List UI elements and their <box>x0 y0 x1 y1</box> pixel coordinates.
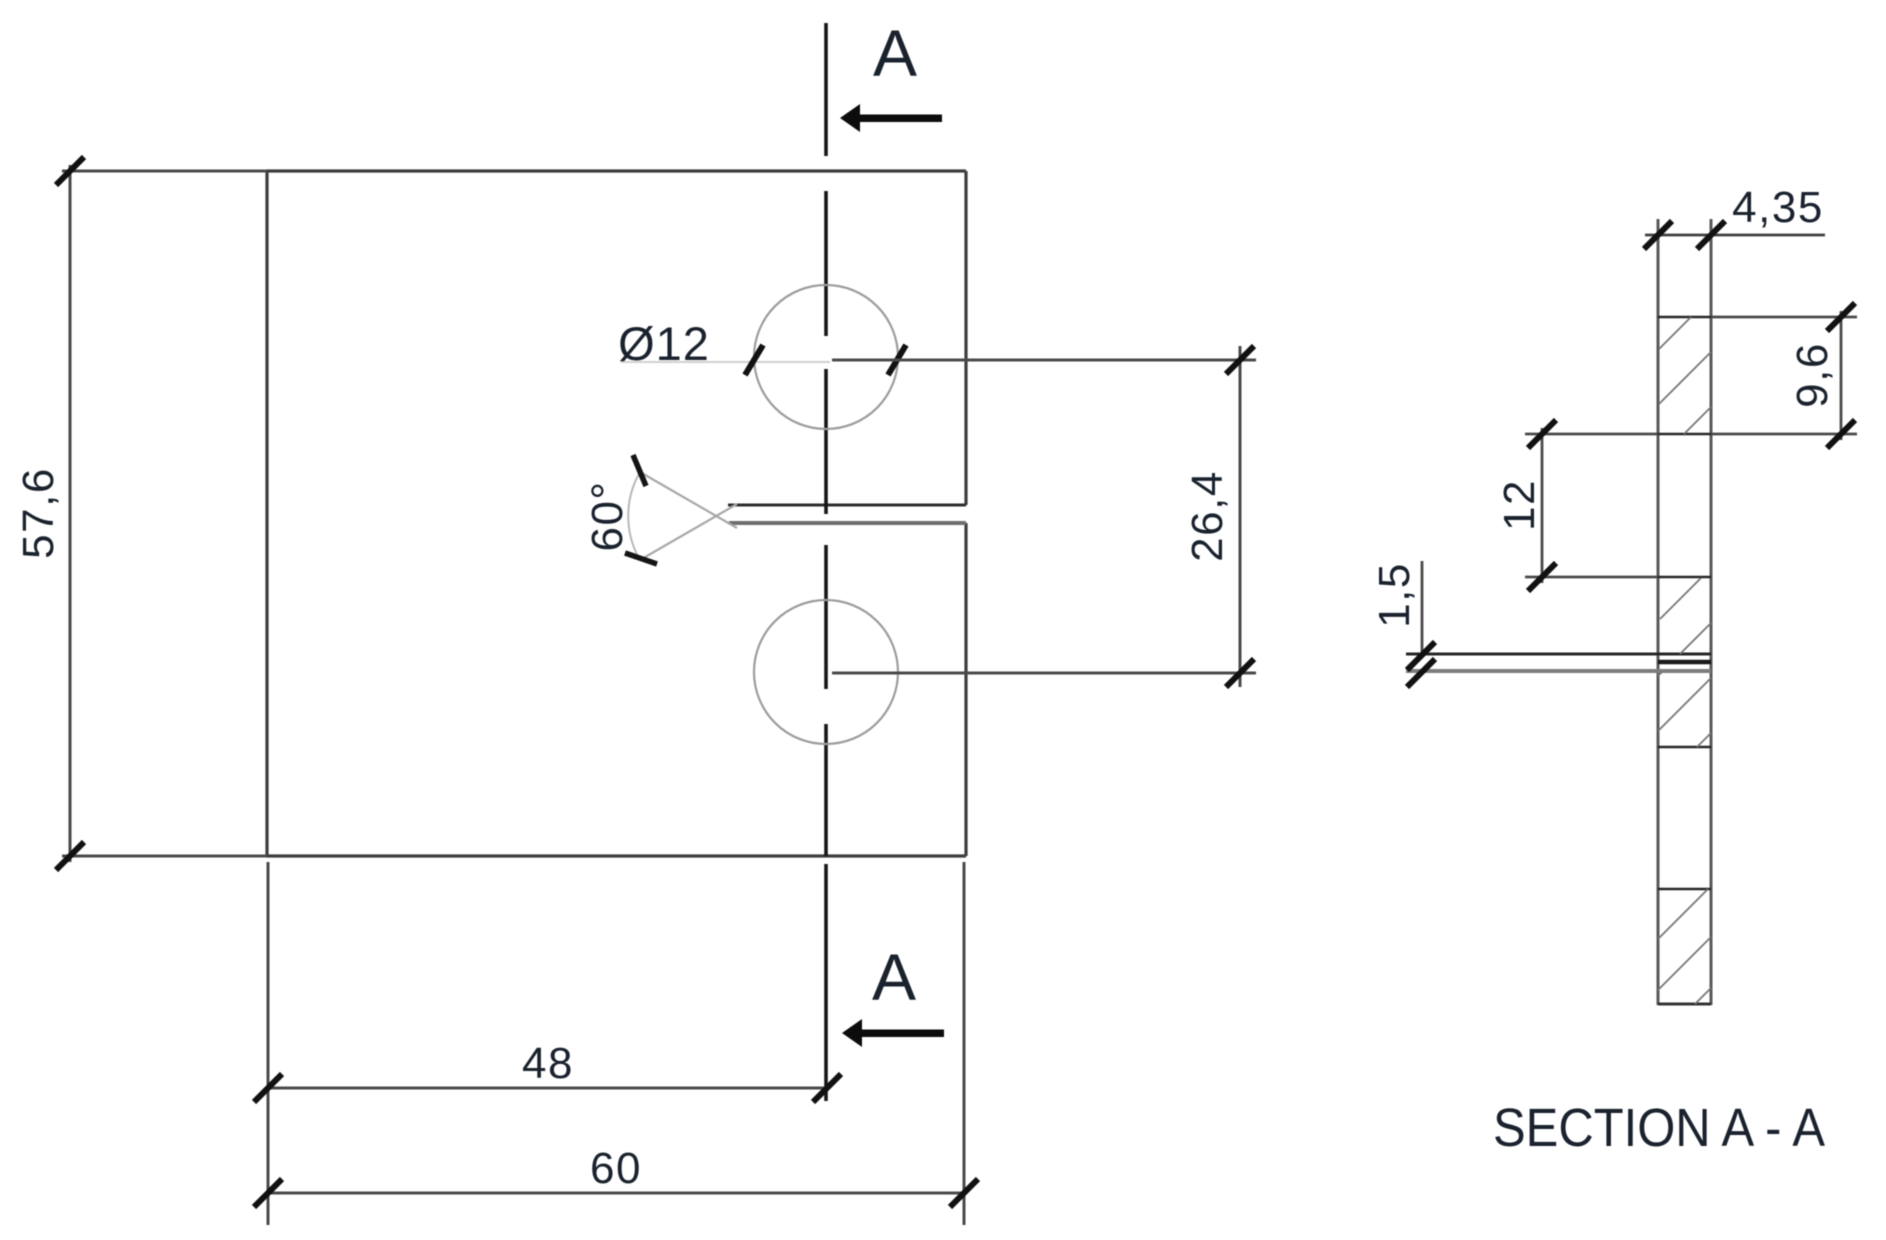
slot top edge / extension 1.5 <box>1406 653 1711 656</box>
dimension line 12 <box>1541 428 1544 583</box>
section line A (top segment) <box>824 23 828 156</box>
svg-text:9,6: 9,6 <box>1788 342 1837 408</box>
ticks 1.5 <box>1407 642 1435 687</box>
section bar internal edge y=317 (hole H1 top) <box>1658 316 1711 319</box>
section bar internal edge y=577 (hole H2 top) <box>1658 576 1711 579</box>
svg-text:57,6: 57,6 <box>14 467 63 559</box>
leader line for diameter label <box>621 361 830 363</box>
ticks 48 <box>254 1074 841 1102</box>
dimension line 26.4 <box>1239 346 1242 687</box>
dimension line 9.6 <box>1840 311 1843 440</box>
section line A (bottom segment) <box>824 864 828 1101</box>
section arrow (top) <box>840 104 942 132</box>
hole H2 (bottom, diam 12) <box>754 600 898 744</box>
ticks 4.35 <box>1644 221 1725 249</box>
dimension line 60 <box>268 1192 964 1195</box>
hole H1 (top, diam 12) <box>754 285 898 429</box>
svg-text:48: 48 <box>522 1039 574 1088</box>
leader shelf 1.5 <box>1421 561 1424 657</box>
60-degree arc <box>628 472 640 560</box>
ticks 57.6 <box>56 157 84 870</box>
slot bottom edge / extension 1.5 <box>1406 669 1711 673</box>
section bar left edge <box>1657 219 1660 1005</box>
section bar internal edge y=747 <box>1658 746 1711 749</box>
section arrow (bottom) <box>842 1019 944 1047</box>
ticks 60 <box>254 1179 978 1207</box>
ticks 26.4 <box>1226 346 1254 687</box>
hatching region 2 <box>1660 578 1711 654</box>
svg-text:4,35: 4,35 <box>1732 183 1824 232</box>
svg-text:SECTION A - A: SECTION A - A <box>1493 1098 1825 1158</box>
60-degree arc ticks <box>625 455 657 564</box>
extension line (bottom left, shared 48/60) <box>267 862 270 1225</box>
section bar top edge / dimension line 4.35 <box>1645 234 1825 237</box>
section bar bottom edge <box>1658 1003 1711 1006</box>
dimension line 48 <box>268 1087 827 1090</box>
notch bottom edge <box>729 521 966 525</box>
extension line (57.6 bottom) <box>62 855 267 858</box>
svg-text:A: A <box>873 16 917 90</box>
dimension line 57.6 <box>69 165 72 862</box>
svg-text:60°: 60° <box>583 480 632 551</box>
svg-text:Ø12: Ø12 <box>618 317 710 370</box>
extension line (bottom right, 60) <box>963 862 966 1225</box>
slot mid line (notch root seen in section) <box>1658 660 1711 665</box>
notch top edge <box>728 504 966 507</box>
ticks 12 <box>1528 420 1556 591</box>
hatching region 3 <box>1658 672 1711 747</box>
60-degree rays (notch V edges extended) <box>640 472 737 560</box>
svg-text:60: 60 <box>590 1144 642 1193</box>
extension line (26.4 top, from hole H1 center) <box>832 359 1256 362</box>
hatching region 1 <box>1659 317 1711 434</box>
hatching region 4 <box>1658 889 1711 1004</box>
svg-text:26,4: 26,4 <box>1183 470 1232 562</box>
plate outline <box>267 171 966 856</box>
extension lines 12 <box>1525 433 1658 436</box>
svg-text:1,5: 1,5 <box>1370 562 1419 628</box>
hole centerline <box>824 191 828 856</box>
svg-text:A: A <box>872 940 916 1014</box>
svg-text:12: 12 <box>1495 479 1544 531</box>
extension line (57.6 top) <box>62 170 267 173</box>
extension line (26.4 bottom, from hole H2 center) <box>832 672 1256 675</box>
section bar internal edge y=889 <box>1658 888 1711 891</box>
hole diameter ticks <box>745 345 906 375</box>
extension lines 9.6 <box>1711 316 1857 319</box>
section bar right edge <box>1710 219 1713 1005</box>
ticks 9.6 <box>1827 303 1855 448</box>
section bar internal edge y=434 (hole H1 bottom) <box>1658 433 1711 436</box>
